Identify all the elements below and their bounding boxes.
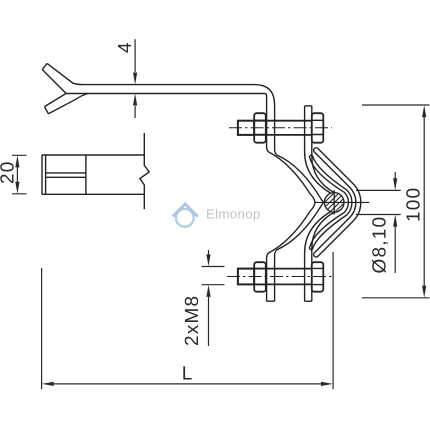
dimension diameter 8,10 (conductor) (356, 172, 401, 273)
wire: piece2 strip line D upper (312, 106, 335, 193)
svg-text:L: L (182, 363, 194, 384)
conductor cross-section circle (300, 184, 369, 222)
wire: right strip tail end cap (305, 300, 312, 302)
dimension 20 (bar width) (12, 155, 27, 194)
nut top bolt (254, 113, 266, 143)
dimension L (overall length) (42, 252, 334, 389)
wire: fork lower prong outer edge into bar bottom line (48, 94, 88, 114)
nut bottom bolt (254, 262, 266, 292)
wire: left strip tail end cap below bottom bolt (267, 300, 275, 302)
wire: piece2 strip line C upper - top cap vertical, bend, hidden behind conductor (305, 106, 332, 194)
node: conductor horizontal centerline (316, 201, 370, 203)
dimension 4 (bar thickness) (133, 39, 137, 118)
svg-text:100: 100 (404, 187, 425, 222)
wire: piece2 strip line D lower (312, 212, 335, 301)
wire: fork upper prong end cap (42, 63, 47, 69)
wire: clamp clip2 outer line with rounded tips (314, 148, 361, 257)
side view of flat bar 20 wide (42, 133, 149, 209)
shank lines top bolt (254, 121, 312, 135)
svg-text:Elmonop: Elmonop (206, 207, 261, 222)
svg-text:20: 20 (0, 160, 18, 184)
wire: piece1 inner line - fork lower prong inner edge, bar bottom, left vertical, inner chevron, bottom tail (45, 94, 315, 302)
shank lines bottom bolt (254, 269, 312, 285)
bolt M8 bottom: end shank (238, 262, 323, 292)
wire: piece1 outer line - fork upper prong, bar top, right vertical, chevron outer arm to bottom tail (47, 63, 323, 301)
watermark logo drop-house (173, 204, 198, 227)
wire: clamp clip1 inner line wrapping conductor (310, 158, 349, 247)
break line zigzag (140, 133, 149, 209)
bolt M8 top: end shank sticking out left (238, 113, 323, 143)
wire: clamp clip2 inner line wrapping conductor (314, 152, 355, 253)
dimension 2xM8 (bolts) (202, 250, 225, 346)
node: top bolt centerline (229, 127, 332, 129)
svg-text:Ø8,10: Ø8,10 (370, 216, 391, 274)
node: bottom bolt centerline (227, 276, 332, 278)
wire: fork upper prong inner edge to crotch (42, 70, 66, 94)
head bottom bolt (312, 262, 324, 292)
wire: piece2 strip line C lower from conductor to bottom vertical and tail (305, 211, 332, 301)
wire: fork lower prong end cap (45, 107, 49, 114)
wire: clamp clip1 outer line with rounded tips (310, 155, 352, 249)
head top bolt (312, 113, 324, 143)
dimension 100 (height between clamp ends) (362, 105, 430, 298)
node: clamp face vertical line through conductor (333, 190, 335, 214)
wire: right strip top end cap (305, 105, 312, 107)
svg-text:2xM8: 2xM8 (182, 295, 203, 346)
svg-text:4: 4 (115, 41, 136, 53)
